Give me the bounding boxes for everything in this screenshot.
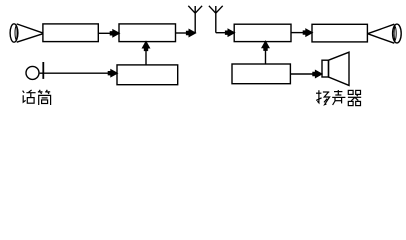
char sheng bbox=[332, 90, 345, 105]
microphone bar bbox=[42, 62, 44, 79]
block box1 (mic amplifier) bbox=[43, 24, 98, 42]
label huatong (microphone) bbox=[23, 90, 51, 105]
microphone circle symbol bbox=[26, 66, 39, 79]
label yangshengqi (loudspeaker) bbox=[316, 90, 361, 106]
block box4 (audio amplifier) bbox=[312, 24, 367, 42]
block box2 (modulator/oscillator) bbox=[119, 24, 176, 42]
up arrow box7 to box3 bbox=[262, 42, 269, 64]
wire arrow RX antenna to box3 bbox=[216, 29, 234, 36]
wire arrow box1 to box2 bbox=[98, 30, 119, 37]
char hua bbox=[23, 90, 36, 103]
char yang bbox=[316, 90, 330, 104]
wire arrow box2 to TX antenna bbox=[176, 30, 196, 37]
char qi bbox=[348, 90, 361, 105]
wire arrow microphone to box6 bbox=[40, 70, 117, 77]
block box6 (audio input amplifier) bbox=[117, 65, 178, 85]
char tong bbox=[38, 90, 51, 105]
block box7 (audio output stage) bbox=[232, 64, 290, 84]
microphone horn icon (left source) bbox=[10, 24, 43, 42]
up arrow box6 to box2 bbox=[143, 42, 150, 65]
wire arrow box7 to speaker bbox=[290, 71, 321, 78]
TX antenna bbox=[188, 6, 202, 33]
loudspeaker symbol bbox=[322, 52, 349, 85]
earpiece horn icon (right sink) bbox=[368, 24, 402, 43]
RX antenna bbox=[209, 6, 223, 33]
wire arrow box3 to box4 bbox=[291, 29, 312, 36]
block box3 (detector) bbox=[234, 24, 291, 41]
